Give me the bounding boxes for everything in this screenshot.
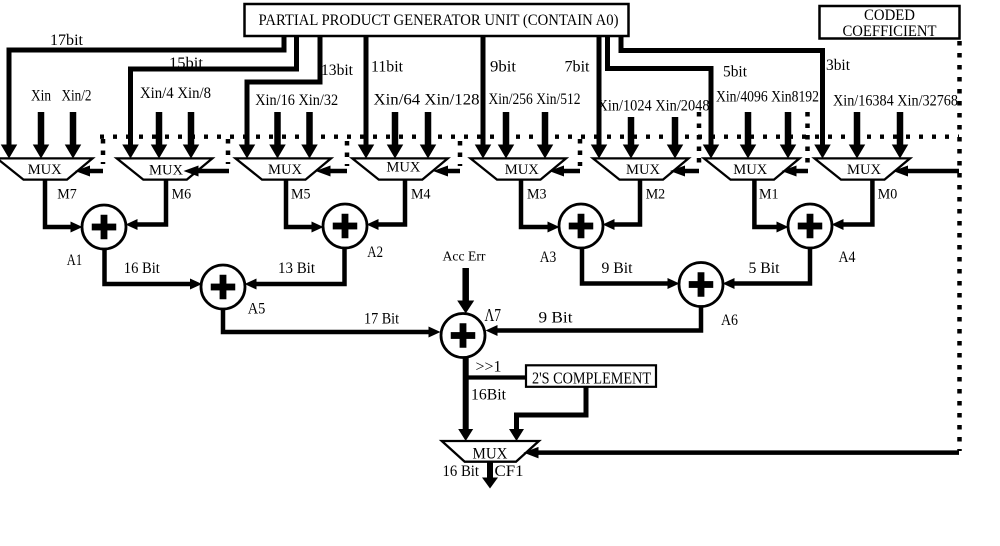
svg-text:PARTIAL PRODUCT GENERATOR UNIT: PARTIAL PRODUCT GENERATOR UNIT (CONTAIN … (259, 12, 619, 29)
svg-text:MUX: MUX (847, 162, 881, 178)
svg-text:CF1: CF1 (495, 463, 524, 480)
svg-text:Xin: Xin (31, 88, 51, 105)
svg-text:16Bit: 16Bit (471, 387, 507, 404)
svg-text:M6: M6 (172, 187, 192, 203)
svg-text:M5: M5 (291, 187, 311, 203)
svg-text:11bit: 11bit (371, 59, 404, 76)
svg-text:Xin/64 Xin/128: Xin/64 Xin/128 (374, 92, 480, 109)
svg-text:A2: A2 (367, 244, 383, 261)
svg-text:A4: A4 (839, 249, 856, 266)
svg-text:7bit: 7bit (565, 59, 591, 76)
svg-text:A5: A5 (248, 301, 266, 318)
svg-text:M3: M3 (527, 187, 547, 203)
svg-text:>>1: >>1 (476, 359, 502, 376)
svg-text:15bit: 15bit (169, 55, 204, 72)
svg-text:MUX: MUX (149, 162, 183, 178)
svg-text:13 Bit: 13 Bit (278, 260, 316, 277)
svg-text:A3: A3 (540, 249, 557, 266)
svg-text:CODED: CODED (864, 7, 915, 24)
svg-text:MUX: MUX (386, 160, 420, 176)
svg-text:Xin/16384 Xin/32768: Xin/16384 Xin/32768 (833, 93, 958, 110)
svg-text:2'S COMPLEMENT: 2'S COMPLEMENT (532, 369, 651, 388)
svg-text:Xin/4096 Xin8192: Xin/4096 Xin8192 (716, 89, 819, 106)
svg-text:Λ7: Λ7 (485, 305, 502, 325)
svg-text:Xin/4 Xin/8: Xin/4 Xin/8 (140, 85, 211, 102)
svg-text:A1: A1 (67, 252, 82, 269)
svg-text:M2: M2 (646, 187, 666, 203)
svg-text:5 Bit: 5 Bit (749, 260, 781, 277)
svg-text:9 Bit: 9 Bit (539, 310, 574, 327)
svg-text:17bit: 17bit (50, 32, 84, 49)
svg-text:M1: M1 (759, 187, 779, 203)
svg-text:MUX: MUX (268, 162, 302, 178)
svg-text:COEFFICIENT: COEFFICIENT (843, 23, 937, 40)
svg-text:Xin/2: Xin/2 (62, 88, 92, 105)
svg-text:M4: M4 (411, 187, 431, 203)
svg-text:M7: M7 (57, 187, 77, 203)
svg-text:17 Bit: 17 Bit (364, 311, 399, 328)
svg-text:16 Bit: 16 Bit (443, 463, 480, 480)
svg-text:MUX: MUX (626, 162, 660, 178)
svg-text:3bit: 3bit (826, 57, 851, 74)
svg-text:M0: M0 (878, 187, 898, 203)
svg-text:A6: A6 (721, 312, 738, 329)
svg-text:16 Bit: 16 Bit (124, 260, 161, 277)
svg-text:13bit: 13bit (321, 62, 354, 79)
svg-text:Xin/256 Xin/512: Xin/256 Xin/512 (489, 91, 581, 108)
svg-text:MUX: MUX (473, 446, 508, 463)
svg-text:9 Bit: 9 Bit (602, 260, 634, 277)
svg-text:MUX: MUX (733, 162, 767, 178)
svg-text:Acc Err: Acc Err (443, 249, 486, 264)
svg-text:MUX: MUX (28, 162, 62, 178)
svg-text:5bit: 5bit (723, 64, 748, 81)
svg-text:Xin/16 Xin/32: Xin/16 Xin/32 (255, 92, 338, 109)
svg-text:MUX: MUX (505, 162, 539, 178)
svg-text:9bit: 9bit (490, 59, 517, 76)
svg-text:Xin/1024 Xin/2048: Xin/1024 Xin/2048 (598, 98, 710, 115)
